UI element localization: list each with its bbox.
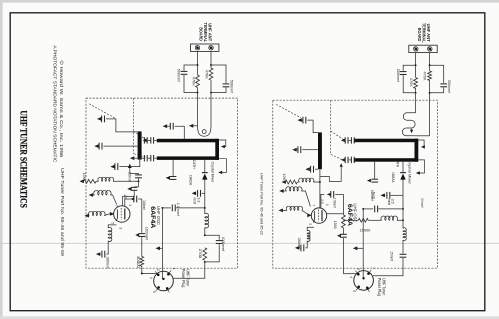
svg-text:2.5: 2.5	[320, 199, 324, 204]
svg-text:1: 1	[128, 204, 132, 206]
svg-text:30000: 30000	[136, 256, 140, 268]
svg-text:2700: 2700	[198, 249, 202, 259]
svg-text:1: 1	[172, 268, 176, 270]
svg-text:470K: 470K	[409, 78, 414, 87]
svg-text:1000mmf: 1000mmf	[106, 256, 110, 269]
svg-text:15000: 15000	[360, 227, 372, 232]
svg-text:1N82A: 1N82A	[391, 172, 395, 183]
svg-text:5: 5	[152, 291, 156, 293]
svg-text:500mmf: 500mmf	[230, 80, 235, 94]
svg-text:1000mmf: 1000mmf	[144, 227, 148, 241]
svg-text:470K: 470K	[422, 72, 427, 81]
svg-text:1.5: 1.5	[123, 194, 127, 199]
svg-text:UHF TUNER SCHEMATICS: UHF TUNER SCHEMATICS	[17, 110, 28, 207]
svg-text:3.5 mmf: 3.5 mmf	[420, 198, 424, 207]
svg-text:6AF4A: 6AF4A	[149, 206, 156, 229]
svg-text:170mmf: 170mmf	[332, 198, 336, 208]
svg-text:10K: 10K	[82, 172, 86, 179]
svg-text:CATH: CATH	[395, 158, 399, 167]
svg-text:1500: 1500	[333, 221, 337, 229]
svg-text:7: 7	[114, 205, 118, 207]
svg-text:100mmf: 100mmf	[370, 190, 374, 201]
svg-text:3: 3	[356, 268, 360, 270]
svg-text:130mmf: 130mmf	[142, 200, 146, 210]
svg-text:1000mmf: 1000mmf	[221, 237, 225, 252]
svg-text:4: 4	[149, 277, 153, 279]
svg-text:5: 5	[111, 222, 115, 224]
svg-text:BOARD: BOARD	[417, 28, 422, 42]
svg-text:A PHOTOFACT STANDARD NOTATION: A PHOTOFACT STANDARD NOTATION SCHEMATIC	[53, 45, 58, 163]
svg-text:470K: 470K	[205, 70, 210, 79]
svg-text:Power Plug: Power Plug	[377, 278, 382, 297]
svg-text:5: 5	[308, 223, 312, 225]
svg-text:500mmf: 500mmf	[177, 69, 182, 83]
svg-text:7: 7	[311, 204, 315, 206]
svg-text:10K: 10K	[282, 173, 286, 180]
svg-text:1: 1	[372, 267, 376, 269]
svg-text:1N82A: 1N82A	[189, 175, 193, 186]
svg-text:3: 3	[156, 269, 160, 271]
svg-text:470K: 470K	[192, 77, 197, 86]
svg-text:BOARD: BOARD	[199, 27, 204, 41]
svg-text:Crystal Mixer: Crystal Mixer	[211, 162, 215, 184]
svg-text:1: 1	[325, 204, 329, 206]
svg-text:1.1 mmf: 1.1 mmf	[176, 203, 180, 217]
svg-text:Power Plug: Power Plug	[181, 269, 186, 288]
svg-text:1000mmf: 1000mmf	[297, 237, 301, 248]
svg-text:UHF Tuner Part No. 95-46 and: UHF Tuner Part No. 95-46 and 95-59	[60, 168, 65, 257]
svg-text:mmf: mmf	[193, 197, 197, 204]
svg-text:6AF4A: 6AF4A	[346, 204, 353, 227]
svg-text:CATH: CATH	[192, 160, 196, 169]
svg-text:Crystal Mixer: Crystal Mixer	[408, 160, 412, 185]
svg-text:5: 5	[352, 290, 356, 292]
svg-text:UHF Tuner Part No. 95-46 and: UHF Tuner Part No. 95-46 and 95-22	[259, 173, 264, 235]
svg-text:3: 3	[119, 227, 123, 229]
svg-text:15mmf: 15mmf	[390, 251, 394, 261]
svg-text:mmf: mmf	[387, 199, 391, 206]
svg-text:© Howard W. Sams & Co., Inc. 1: © Howard W. Sams & Co., Inc. 1956	[59, 60, 64, 158]
svg-text:4: 4	[349, 276, 353, 278]
svg-text:500mmf: 500mmf	[396, 69, 401, 83]
svg-text:500mmf: 500mmf	[447, 80, 452, 94]
